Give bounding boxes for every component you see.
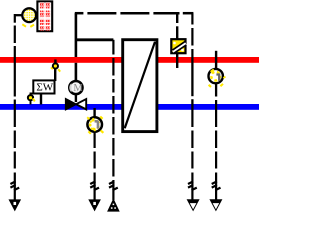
return temperature sensor B2 (circle)	[87, 117, 103, 134]
wire: dashed signal down (x216)	[215, 100, 217, 200]
break symbol on x216 line	[212, 181, 221, 190]
control valve Y1 (two-port, left half filled)	[66, 99, 86, 109]
heat meter (sigma-W box)	[33, 80, 54, 93]
wire: elbow to meter return sensor	[31, 93, 36, 95]
flow switch F1 (yellow box with diagonal band)	[171, 39, 186, 53]
supply temperature sensor B1 (yellow circle on red pipe)	[209, 69, 226, 87]
terminal row 2	[40, 11, 44, 18]
wire: dashed drop at right end of bus	[191, 13, 193, 58]
arrow: off-page connector down (x192)	[187, 199, 200, 211]
wire: below sensor solid	[215, 84, 217, 97]
wire: actuator stem to valve	[75, 95, 77, 102]
controller A1 (box with red terminal rows)	[37, 1, 52, 31]
wire: drop to flow switch	[176, 13, 178, 39]
arrow: off-page connector up (x113)	[107, 198, 120, 211]
arrow: off-page connector down (left)	[9, 199, 22, 211]
heat meter supply sensor (small circle on red pipe)	[51, 63, 60, 71]
supply pipe (hot water, red)	[0, 57, 259, 63]
heat exchanger E1	[123, 40, 157, 132]
wire: supply sensor tap above red pipe	[215, 51, 217, 69]
wire: dashed signal from return sensor down	[93, 133, 95, 201]
wire: return sensor stem to pipe	[30, 100, 32, 104]
wire: supply sensor to meter	[54, 69, 56, 81]
terminal row 1	[40, 2, 44, 8]
wire: drop to valve actuator (upper part)	[75, 13, 78, 57]
return pipe (cold water, blue)	[0, 104, 259, 110]
wire: left dashed signal line going down	[14, 14, 16, 201]
arrow: off-page connector down (sensor)	[88, 199, 101, 211]
break symbol on x113 line	[109, 181, 118, 190]
break symbol on x192 line	[188, 181, 197, 190]
break symbol on left line	[10, 181, 19, 190]
wire: top dashed control bus	[75, 12, 194, 15]
valve actuator M1 (motor circle)	[69, 81, 83, 94]
terminal row 4	[40, 26, 44, 30]
wire: meter to return pipe	[40, 94, 42, 105]
outdoor temperature sensor B9 (yellow circle)	[22, 8, 36, 27]
break symbol on sensor line	[90, 181, 99, 190]
wire: x192 dashed below blue pipe	[191, 110, 193, 200]
wire: flow switch probe into red pipe	[176, 53, 178, 68]
wire: x192 solid between pipes	[191, 58, 193, 96]
wire: supply sensor stem into red pipe	[54, 60, 56, 65]
terminal row 3	[40, 19, 44, 25]
svg-text:M: M	[73, 83, 83, 94]
wire: dashed signal line x113 down through pipes	[112, 40, 114, 200]
svg-text:ΣW: ΣW	[36, 81, 53, 93]
heat meter return sensor (small circle on blue pipe)	[28, 95, 35, 101]
arrow: off-page connector down (x216)	[209, 199, 222, 211]
wire: branch to signal line x113	[76, 38, 114, 41]
wire: valve actuator feed below red pipe	[75, 63, 78, 81]
wire: return sensor stem	[93, 108, 95, 117]
wire: outdoor sensor to left signal drop	[15, 14, 22, 16]
